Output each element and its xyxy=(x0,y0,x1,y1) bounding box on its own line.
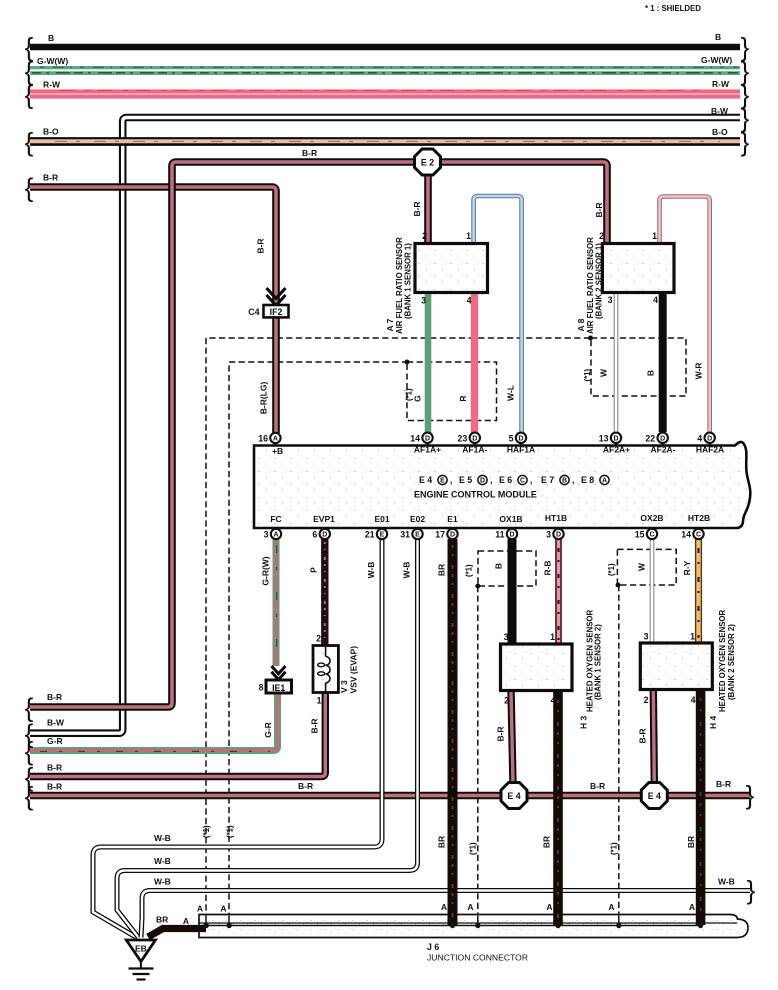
svg-text:3: 3 xyxy=(546,530,551,540)
svg-text:(BANK 1 SENSOR 1): (BANK 1 SENSOR 1) xyxy=(404,243,413,319)
svg-text:3: 3 xyxy=(608,295,613,305)
svg-text:B-R: B-R xyxy=(256,238,266,253)
svg-text:B: B xyxy=(494,563,504,569)
svg-text:HEATED OXYGEN SENSOR: HEATED OXYGEN SENSOR xyxy=(718,610,727,712)
svg-text:W-B: W-B xyxy=(402,562,412,579)
wire BR (ECM E1 to junction A) xyxy=(437,539,453,925)
svg-text:E 8: E 8 xyxy=(581,475,594,485)
svg-text:,: , xyxy=(572,475,574,485)
svg-text:G-R: G-R xyxy=(263,722,273,738)
svg-text:A: A xyxy=(467,902,473,912)
svg-text:8: 8 xyxy=(259,683,264,693)
connector C4 IF2 box xyxy=(248,305,288,317)
ground point EB triangle xyxy=(126,940,155,962)
svg-text:(*1): (*1) xyxy=(610,842,619,855)
svg-text:(BANK 2 SENSOR 1): (BANK 2 SENSOR 1) xyxy=(595,243,604,319)
svg-text:A: A xyxy=(602,478,607,485)
svg-text:31: 31 xyxy=(400,530,410,540)
svg-text:B-R: B-R xyxy=(47,763,62,773)
svg-text:A: A xyxy=(273,532,278,539)
svg-text:W-B: W-B xyxy=(718,877,735,887)
svg-text:J 6: J 6 xyxy=(427,942,439,952)
svg-text:5: 5 xyxy=(509,433,514,443)
svg-text:}: } xyxy=(741,127,750,157)
svg-text:4: 4 xyxy=(551,696,556,706)
svg-text:A: A xyxy=(273,436,278,443)
wire R-W (top row 3) xyxy=(30,79,740,94)
ECM terminal 3 D (HT1B) xyxy=(546,528,564,540)
svg-text:BR: BR xyxy=(437,836,447,848)
svg-text:C: C xyxy=(696,532,701,539)
svg-text:11: 11 xyxy=(495,530,504,540)
wire B (top row 1) xyxy=(30,32,740,47)
svg-text:D: D xyxy=(660,435,665,442)
wire B-O (row 4) xyxy=(30,127,740,142)
svg-text:R-W: R-W xyxy=(43,80,61,90)
ECM terminal 15 C (OX2B) xyxy=(635,528,657,540)
svg-text:22: 22 xyxy=(645,433,655,443)
svg-text:E: E xyxy=(415,532,420,539)
svg-text:(BANK 2 SENSOR 2): (BANK 2 SENSOR 2) xyxy=(727,624,736,700)
sensor H3 HEATED OXYGEN SENSOR (BANK 1 SENSOR 2) xyxy=(501,610,603,729)
connector C4 IF2 chevrons xyxy=(267,288,286,306)
wire BR (H3 pin4 to junction A) xyxy=(542,691,559,926)
wire B (A8 pin4 to ECM AF2A-) xyxy=(646,292,663,432)
wire W-L (A7 pin1 loop to ECM HAF1A) xyxy=(474,196,522,432)
wire B (ECM OX1B to H3 pin3) xyxy=(494,539,513,644)
ECM terminal 11 D (OX1B) xyxy=(495,528,517,540)
svg-text:BR: BR xyxy=(437,564,447,576)
svg-text:2: 2 xyxy=(644,695,649,705)
svg-text:13: 13 xyxy=(599,433,609,443)
svg-text:C: C xyxy=(520,478,525,485)
svg-text:D: D xyxy=(613,435,618,442)
svg-text:B: B xyxy=(715,32,721,42)
ECM terminal 14 D xyxy=(410,433,432,446)
svg-text:(*1): (*1) xyxy=(583,369,592,382)
svg-text:D: D xyxy=(518,435,523,442)
svg-text:G-R(W): G-R(W) xyxy=(261,556,271,585)
svg-text:C: C xyxy=(649,532,654,539)
wire W-B (ECM E02 down, left, to EB ground) xyxy=(117,539,418,938)
wire BR (EB ground to junction connector) xyxy=(148,915,206,938)
svg-text:C4: C4 xyxy=(248,307,259,317)
svg-text:A 7: A 7 xyxy=(385,318,395,331)
svg-text:D: D xyxy=(480,478,485,485)
svg-text:B-W: B-W xyxy=(47,718,65,728)
svg-text:6: 6 xyxy=(312,530,317,540)
shield dashed run outer (to A8 shield box, grounded at junction A) xyxy=(206,338,590,916)
wire G (A7 pin3 to ECM AF1A+) xyxy=(413,293,429,434)
junction J6 internal bus xyxy=(201,925,701,927)
svg-text:(*1): (*1) xyxy=(202,825,211,838)
wire W-B (ECM E01 down, left, to EB ground) xyxy=(93,539,382,938)
wire B-R (V3 pin1 down then left to edge) xyxy=(30,693,325,777)
svg-text:1: 1 xyxy=(317,696,322,706)
svg-text:OX1B: OX1B xyxy=(499,514,522,524)
shield dashed drop from OX2B box to junction xyxy=(618,585,620,916)
wire W-B (right edge row to EB ground) xyxy=(141,877,750,938)
node: shield dot OX1B box xyxy=(475,584,480,589)
svg-text:V 3: V 3 xyxy=(339,680,349,693)
svg-text:B-W: B-W xyxy=(711,106,729,116)
svg-text:3: 3 xyxy=(421,296,426,306)
wire G-R(W) (ECM FC to IE1) xyxy=(261,539,277,666)
svg-text:B-R: B-R xyxy=(638,728,648,743)
sensor A7 AIR FUEL RATIO SENSOR (BANK 1 SENSOR 1) xyxy=(385,231,488,334)
svg-text:+B: +B xyxy=(272,446,283,456)
ECM terminal 23 D xyxy=(458,433,480,446)
svg-text:(*1): (*1) xyxy=(607,563,616,576)
svg-text:BR: BR xyxy=(156,915,168,925)
svg-text:B-R: B-R xyxy=(302,148,317,158)
svg-text:D: D xyxy=(322,532,327,539)
wire B-R (bottom row through E4 grounds) xyxy=(30,779,750,796)
svg-text:3: 3 xyxy=(644,632,649,642)
svg-text:16: 16 xyxy=(258,434,268,444)
svg-text:2: 2 xyxy=(599,231,604,241)
junction J6 name xyxy=(427,942,528,963)
svg-text:W-R: W-R xyxy=(694,363,704,380)
wire B-R (E2 to A7 pin 2) xyxy=(412,174,428,244)
svg-text:E 7: E 7 xyxy=(541,475,554,485)
svg-text:P: P xyxy=(309,567,319,573)
svg-text:EVP1: EVP1 xyxy=(313,514,335,524)
shield box around A7 wires xyxy=(407,362,497,421)
svg-text:* 1 : SHIELDED: * 1 : SHIELDED xyxy=(645,4,701,13)
svg-text:B-R: B-R xyxy=(43,173,58,183)
svg-text:{: { xyxy=(25,127,34,157)
svg-text:{: { xyxy=(25,80,34,110)
svg-text:D: D xyxy=(707,435,712,442)
svg-text:B-R: B-R xyxy=(496,726,506,741)
svg-text:W-B: W-B xyxy=(366,562,376,579)
shield box around OX2B wire xyxy=(617,549,676,585)
wire B-W (left row, up and over to right edge) xyxy=(30,106,740,733)
svg-text:B-R: B-R xyxy=(47,692,62,702)
svg-text:B: B xyxy=(562,478,567,485)
svg-text:A: A xyxy=(220,904,226,914)
svg-text:D: D xyxy=(425,435,430,442)
svg-text:G-W(W): G-W(W) xyxy=(37,56,68,66)
svg-text:B: B xyxy=(48,33,54,43)
ECM ENGINE CONTROL MODULE box xyxy=(254,442,750,528)
wire W-R (A8 pin1 loop to ECM HAF2A) xyxy=(660,197,710,433)
svg-text:D: D xyxy=(450,532,455,539)
svg-text:E01: E01 xyxy=(374,514,389,524)
svg-text:R-W: R-W xyxy=(712,79,730,89)
svg-text:W: W xyxy=(637,562,647,571)
ECM terminal 3 A (FC) xyxy=(264,528,282,540)
svg-text:R-Y: R-Y xyxy=(682,560,692,575)
junction connector J6 bar xyxy=(199,915,748,938)
svg-text:21: 21 xyxy=(365,530,375,540)
svg-text:E02: E02 xyxy=(410,514,425,524)
node: shield dot OX2B box xyxy=(616,583,621,588)
svg-text:(*1): (*1) xyxy=(465,564,474,577)
svg-text:(*1): (*1) xyxy=(226,825,235,838)
svg-text:A: A xyxy=(441,902,447,912)
svg-text:E 4: E 4 xyxy=(419,475,432,485)
svg-text:(*1): (*1) xyxy=(405,388,414,401)
junction terminal A labels xyxy=(183,902,695,926)
ECM terminal 22 D xyxy=(645,433,667,446)
svg-text:4: 4 xyxy=(653,295,658,305)
sensor A8 AIR FUEL RATIO SENSOR (BANK 2 SENSOR 1) xyxy=(576,231,674,334)
svg-text:17: 17 xyxy=(435,530,445,540)
svg-text:E: E xyxy=(380,532,385,539)
ECM terminal 6 D (EVP1) xyxy=(312,528,330,540)
svg-text:VSV (EVAP): VSV (EVAP) xyxy=(349,646,359,694)
svg-text:JUNCTION CONNECTOR: JUNCTION CONNECTOR xyxy=(427,953,528,963)
svg-text:E: E xyxy=(440,478,445,485)
svg-text:2: 2 xyxy=(422,231,427,241)
svg-text:IF2: IF2 xyxy=(270,307,283,317)
svg-text:B-O: B-O xyxy=(43,127,59,137)
svg-text:}: } xyxy=(747,875,756,905)
svg-text:E1: E1 xyxy=(447,514,458,524)
wire R-B (ECM HT1B to H3 pin1) xyxy=(543,539,559,644)
svg-text:B-R: B-R xyxy=(716,779,731,789)
svg-text:15: 15 xyxy=(635,530,645,540)
svg-text:1: 1 xyxy=(690,632,695,642)
SHIELDED note xyxy=(645,4,701,13)
svg-text:14: 14 xyxy=(410,433,420,443)
wire B-R (left row to E2 and sensors A7/A8) xyxy=(30,148,607,707)
svg-text:R: R xyxy=(458,395,468,401)
svg-text:ENGINE CONTROL MODULE: ENGINE CONTROL MODULE xyxy=(414,490,537,500)
wire B-R (row 5 to C4/IF2 and ECM pin16) xyxy=(30,173,276,434)
svg-text:A: A xyxy=(546,902,552,912)
svg-text:(BANK 1 SENSOR 2): (BANK 1 SENSOR 2) xyxy=(594,624,603,700)
svg-text:FC: FC xyxy=(270,514,281,524)
ECM bottom pin names xyxy=(270,513,710,524)
wire R (A7 pin4 to ECM AF1A-) xyxy=(458,293,475,434)
ground connector E2 octagon xyxy=(415,149,441,175)
svg-text:W-B: W-B xyxy=(154,877,171,887)
svg-text:3: 3 xyxy=(504,632,509,642)
svg-text:1: 1 xyxy=(652,231,657,241)
svg-text:W-L: W-L xyxy=(506,385,516,401)
svg-text:HT1B: HT1B xyxy=(545,513,567,523)
svg-text:OX2B: OX2B xyxy=(640,513,663,523)
svg-text:A: A xyxy=(183,916,189,926)
svg-text:BR: BR xyxy=(542,836,552,848)
connector IE1 box xyxy=(259,680,292,693)
svg-text:23: 23 xyxy=(458,433,468,443)
wire P (ECM EVP1 to V3 pin2) xyxy=(309,539,325,646)
svg-text:BR: BR xyxy=(686,836,696,848)
svg-text:4: 4 xyxy=(691,695,696,705)
svg-text:B-R(LG): B-R(LG) xyxy=(259,382,269,415)
svg-text:2: 2 xyxy=(504,696,509,706)
shield (*1) labels xyxy=(202,369,619,855)
svg-text:H 3: H 3 xyxy=(579,716,589,730)
svg-text:W-B: W-B xyxy=(154,833,171,843)
svg-text:A: A xyxy=(608,902,614,912)
svg-text:4: 4 xyxy=(697,433,702,443)
svg-text:3: 3 xyxy=(264,530,269,540)
svg-text:E 2: E 2 xyxy=(421,157,434,167)
wire W (A8 pin3 to ECM AF2A+) xyxy=(599,292,617,432)
ECM terminal 16 A xyxy=(258,433,280,446)
ECM top pin names xyxy=(272,445,724,457)
svg-text:E 4: E 4 xyxy=(507,791,520,801)
svg-text:B-R: B-R xyxy=(412,201,422,216)
svg-text:IE1: IE1 xyxy=(272,683,285,693)
connector IE1 chevrons xyxy=(272,666,286,680)
svg-text:B-R: B-R xyxy=(590,781,605,791)
wire BR (H4 pin4 to junction A) xyxy=(686,690,701,926)
solenoid V3 VSV (EVAP) xyxy=(313,634,359,706)
svg-text:4: 4 xyxy=(467,296,472,306)
node: shield dot A8 box xyxy=(588,336,593,341)
svg-text:D: D xyxy=(509,532,514,539)
ground connector E4 octagon (right) xyxy=(641,783,667,809)
sensor H4 HEATED OXYGEN SENSOR (BANK 2 SENSOR 2) xyxy=(640,610,736,729)
svg-text:1: 1 xyxy=(550,632,555,642)
ECM terminal 4 D xyxy=(697,433,715,446)
svg-text:D: D xyxy=(556,532,561,539)
svg-text:}: } xyxy=(746,780,755,810)
svg-text:B-R: B-R xyxy=(298,781,313,791)
svg-text:EB: EB xyxy=(135,944,147,954)
wire B-R (H3 pin2 to E4) xyxy=(496,691,514,784)
ECM terminal 21 E (E01) xyxy=(365,528,387,540)
shield box around OX1B wire xyxy=(478,551,536,586)
wire G-R (IE1 down then left to edge) xyxy=(30,693,278,752)
svg-text:2: 2 xyxy=(316,634,321,644)
svg-text:A: A xyxy=(197,904,203,914)
svg-text:{: { xyxy=(25,781,34,811)
wire B-R (H4 pin2 to E4) xyxy=(638,690,655,784)
svg-text:14: 14 xyxy=(681,530,691,540)
svg-text:H 4: H 4 xyxy=(708,716,718,730)
svg-text:,: , xyxy=(530,475,532,485)
ground connector E4 octagon (left) xyxy=(501,783,527,809)
shield box around A8 wires xyxy=(591,338,686,396)
right edge braces xyxy=(741,32,756,905)
svg-text:G: G xyxy=(413,395,423,402)
ECM terminal 5 D xyxy=(509,433,527,446)
svg-text:B-R: B-R xyxy=(594,202,604,217)
svg-text:W-B: W-B xyxy=(154,856,171,866)
svg-text:R-B: R-B xyxy=(543,560,553,575)
svg-text:1: 1 xyxy=(466,231,471,241)
svg-text:G-R: G-R xyxy=(47,736,63,746)
ECM terminal 14 C (HT2B) xyxy=(681,528,703,540)
svg-text:A 8: A 8 xyxy=(576,318,586,331)
ECM terminal 17 D (E1) xyxy=(435,528,457,540)
svg-text:G-W(W): G-W(W) xyxy=(701,55,732,65)
ECM terminal 31 E (E02) xyxy=(400,528,422,540)
svg-text:B-R: B-R xyxy=(310,718,320,733)
svg-text:B-O: B-O xyxy=(712,127,728,137)
wire W (ECM OX2B to H4 pin3) xyxy=(637,539,653,643)
shield dashed drop from OX1B box to junction xyxy=(477,586,479,916)
svg-text:HT2B: HT2B xyxy=(688,513,710,523)
svg-text:,: , xyxy=(490,475,492,485)
svg-text:W: W xyxy=(599,368,609,377)
wire G-W(W) (top row 2) xyxy=(30,55,740,73)
svg-text:B-R: B-R xyxy=(47,782,62,792)
shield dashed run inner (to A7 shield box, grounded at junction A) xyxy=(229,362,408,916)
svg-text:D: D xyxy=(472,435,477,442)
svg-text:(*1): (*1) xyxy=(469,842,478,855)
left edge braces xyxy=(25,32,34,811)
junction bus dots xyxy=(204,916,704,929)
svg-text:A: A xyxy=(689,902,695,912)
svg-text:,: , xyxy=(450,475,452,485)
node: shield dot A7 box xyxy=(405,360,410,365)
ground symbol xyxy=(129,962,154,980)
svg-text:E 4: E 4 xyxy=(648,791,661,801)
svg-text:E 6: E 6 xyxy=(499,475,512,485)
svg-text:E 5: E 5 xyxy=(459,475,472,485)
ECM terminal 13 D xyxy=(599,433,621,446)
svg-text:{: { xyxy=(25,173,34,203)
svg-text:B: B xyxy=(646,370,656,376)
wire R-Y (ECM HT2B to H4 pin1) xyxy=(682,539,699,643)
